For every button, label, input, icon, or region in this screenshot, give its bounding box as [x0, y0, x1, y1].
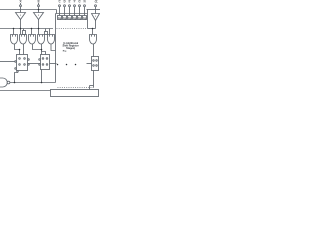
svg-text:G: G	[78, 0, 80, 4]
svg-text:D: D	[64, 0, 66, 4]
svg-text:H: H	[84, 0, 86, 4]
svg-text:CL: CL	[95, 0, 99, 4]
svg-text:Stages): Stages)	[66, 47, 75, 50]
svg-text:E: E	[69, 0, 71, 4]
svg-text:C: C	[59, 0, 61, 4]
svg-text:A: A	[20, 0, 22, 4]
svg-text:B: B	[38, 0, 40, 4]
